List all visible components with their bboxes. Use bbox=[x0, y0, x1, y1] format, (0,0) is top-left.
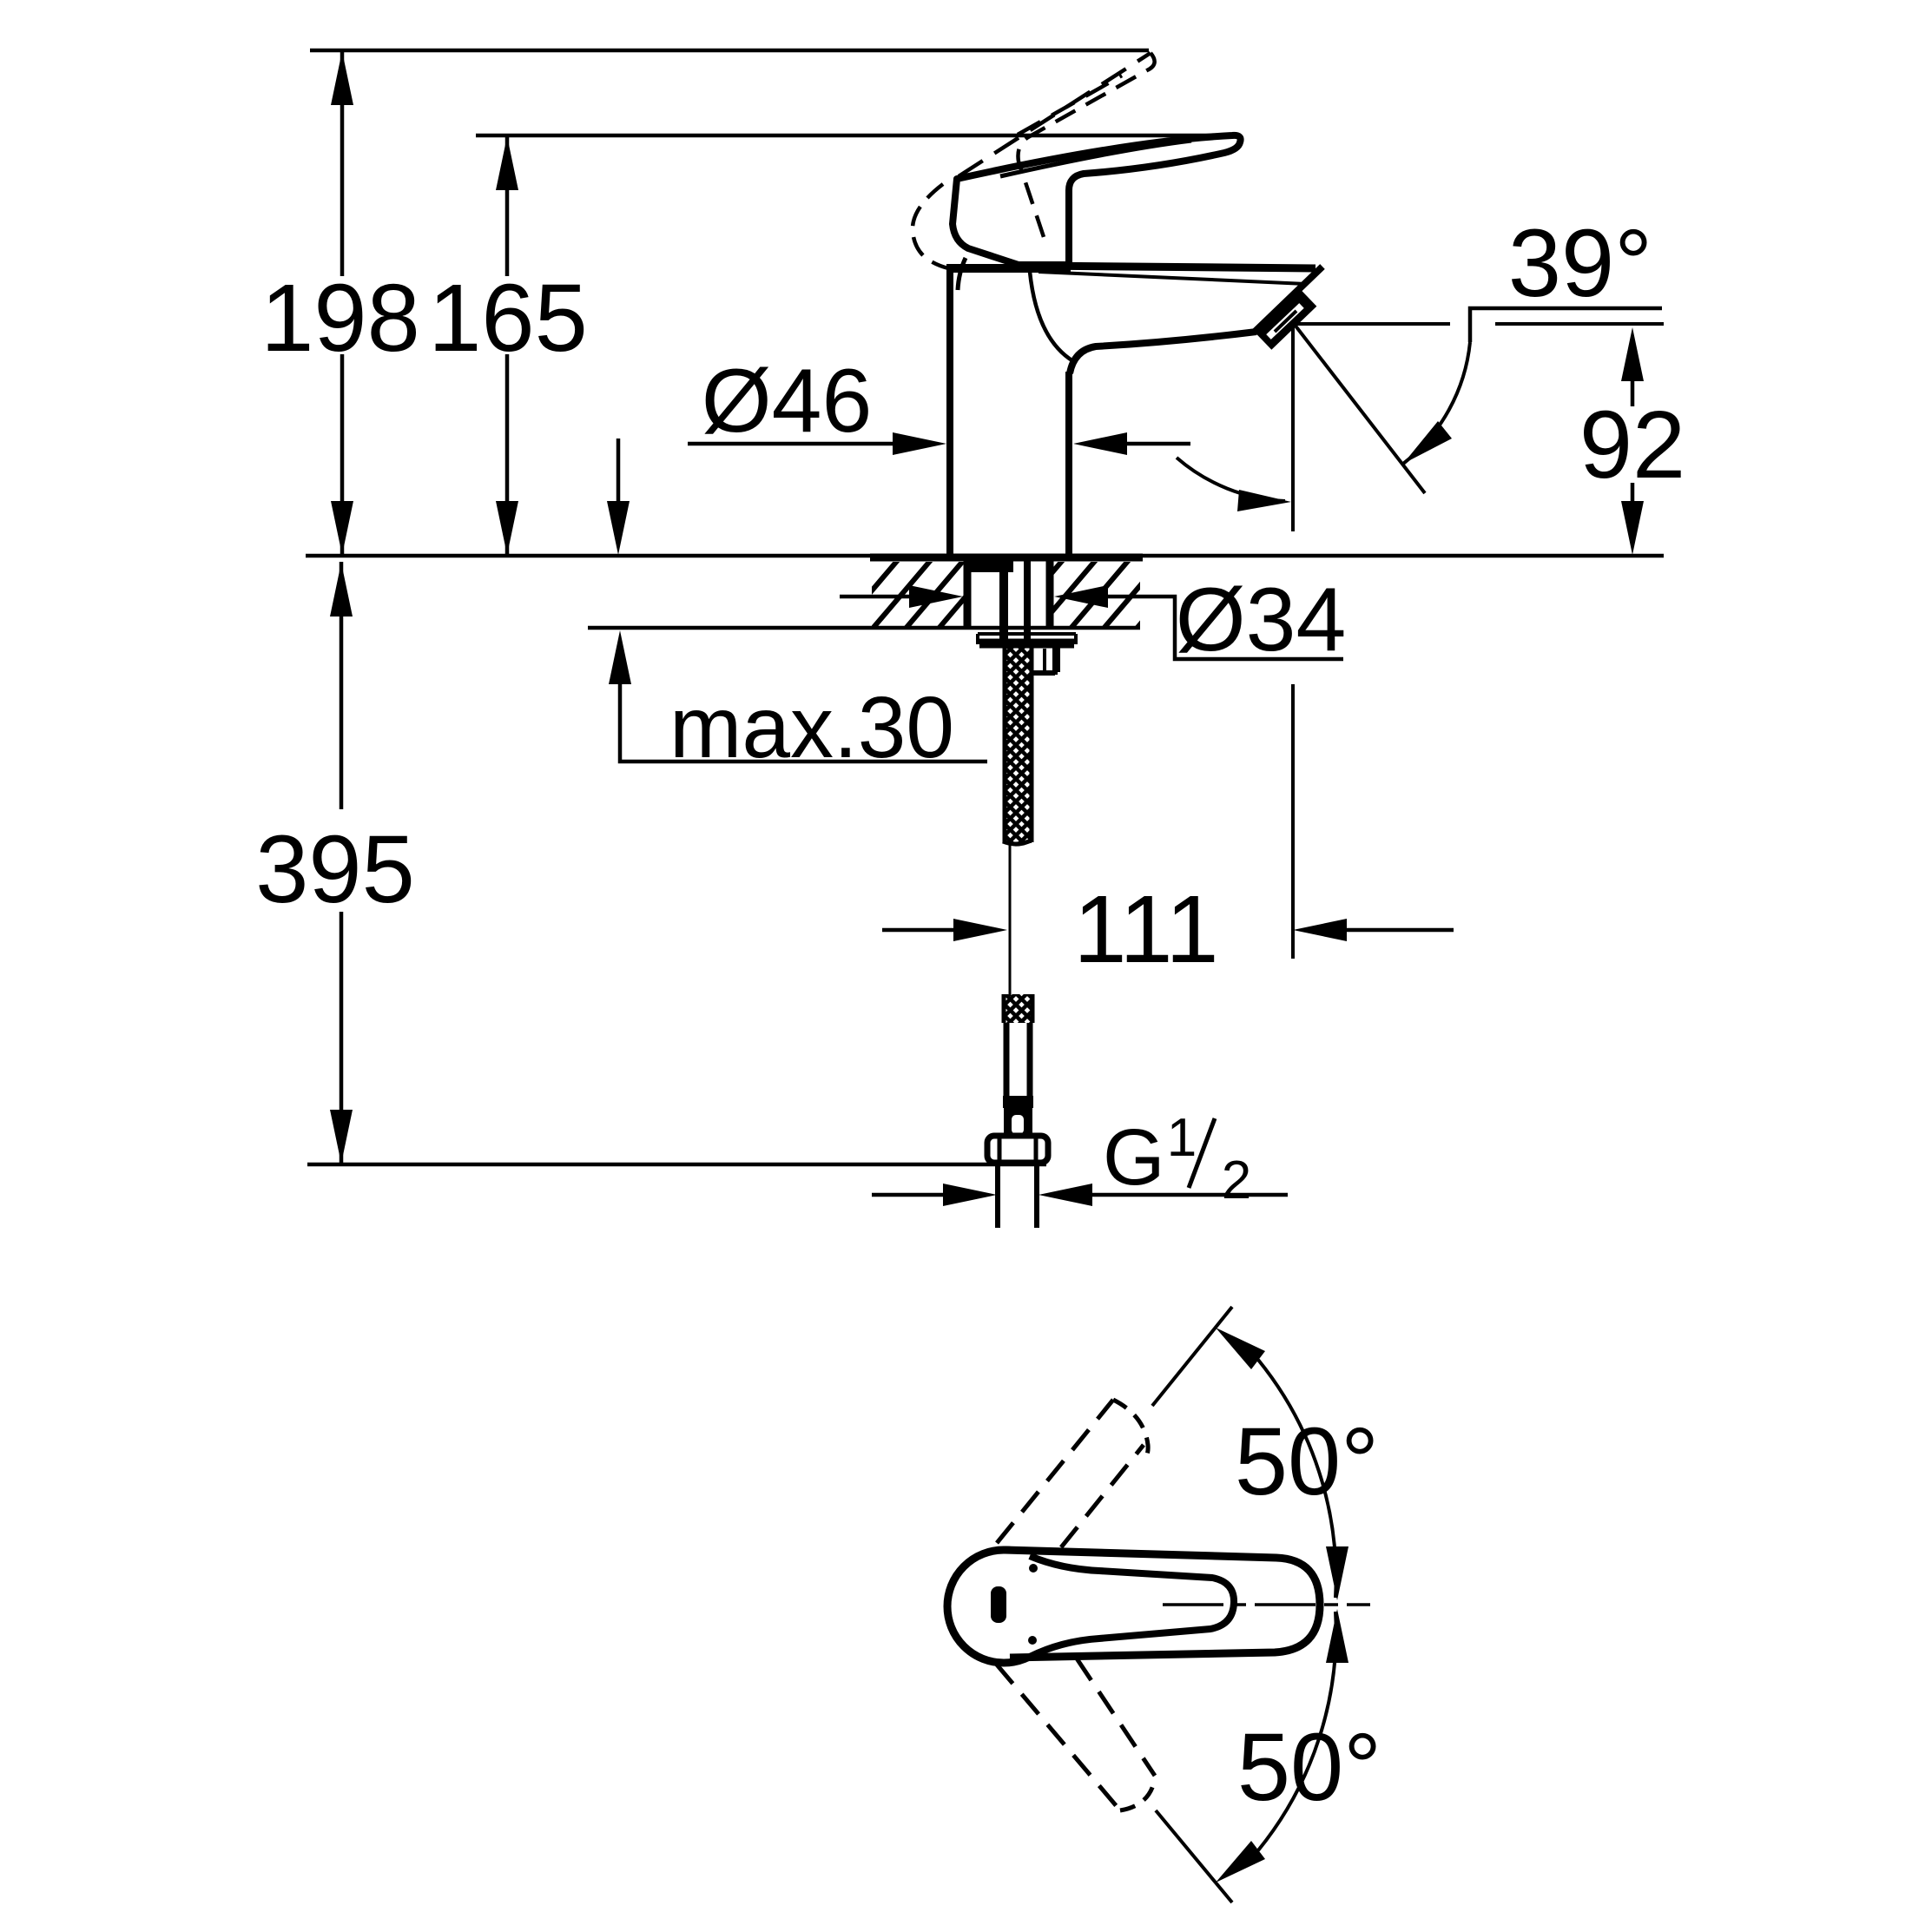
G half pipe bbox=[998, 1164, 1037, 1228]
39 arc A bbox=[1403, 342, 1470, 464]
washer below counter bbox=[978, 634, 1076, 644]
dim 165 arrows bbox=[496, 136, 518, 555]
dim G1/2 arrows bbox=[872, 1193, 945, 1197]
spout tip face bbox=[1255, 267, 1322, 332]
svg-text:Ø34: Ø34 bbox=[1176, 570, 1347, 670]
39 arc B bbox=[1177, 458, 1285, 501]
dashed handle second top line bbox=[1018, 76, 1122, 135]
svg-text:50°: 50° bbox=[1235, 1408, 1379, 1515]
dim 395 vertical line bbox=[340, 562, 344, 1164]
svg-text:Ø46: Ø46 bbox=[702, 351, 873, 452]
dim 92 vertical bbox=[1631, 379, 1635, 502]
dim line 165 top horizontal bbox=[476, 134, 1241, 138]
detail dots bbox=[1029, 1564, 1038, 1573]
shank left wall bbox=[964, 561, 972, 628]
faucet body left edge bbox=[946, 266, 953, 561]
connector nut bbox=[987, 1136, 1048, 1163]
counter top thick segment under faucet bbox=[870, 554, 1143, 562]
top view lever outline bbox=[1005, 1550, 1320, 1658]
upper dashed handle top view bbox=[997, 1400, 1113, 1543]
svg-text:92: 92 bbox=[1579, 392, 1685, 498]
bottom reference line bbox=[307, 1163, 1046, 1167]
spout underside bbox=[1070, 332, 1256, 373]
dashed rotated dome bbox=[913, 184, 948, 268]
lower hose tube bbox=[1006, 1023, 1030, 1098]
spout inner curve bbox=[1030, 272, 1073, 361]
hose braided upper bbox=[1005, 647, 1032, 843]
dashed handle rotated top edge bbox=[959, 53, 1151, 176]
counter bottom line bbox=[588, 626, 1140, 630]
svg-text:165: 165 bbox=[428, 265, 588, 372]
39 degree diagonal line bbox=[1295, 325, 1425, 493]
lower hose braid segment bbox=[1004, 994, 1032, 1023]
aerator bbox=[1263, 298, 1309, 341]
50 lower arc bbox=[1258, 1612, 1336, 1850]
top view centerline bbox=[1163, 1603, 1370, 1606]
counter top line bbox=[306, 554, 1664, 558]
shank right wall bbox=[1046, 561, 1054, 628]
dim line 198 top horizontal bbox=[310, 49, 1149, 53]
50 upper arc bbox=[1258, 1360, 1336, 1598]
counter hatching bbox=[834, 549, 1204, 636]
svg-text:2: 2 bbox=[1222, 1151, 1251, 1210]
dim 198 vertical line bbox=[340, 50, 345, 556]
ferrule bbox=[1004, 1108, 1032, 1137]
dim 165 vertical line bbox=[505, 135, 510, 556]
dim Ø34 arrows bbox=[840, 595, 911, 599]
spout top inner thin line bbox=[1039, 272, 1306, 284]
50 lower extension line bbox=[1156, 1810, 1232, 1902]
max.30 dimension bbox=[620, 684, 987, 762]
50 upper extension line bbox=[1152, 1307, 1232, 1406]
svg-text:39°: 39° bbox=[1508, 210, 1652, 317]
shank top bar bbox=[965, 561, 1013, 572]
dim 395 arrows bbox=[330, 563, 353, 1164]
lever hole bbox=[991, 1586, 1006, 1623]
top view cap circle bbox=[947, 1550, 1060, 1663]
dashed handle underside and elbow bbox=[1018, 53, 1154, 247]
svg-text:max.30: max.30 bbox=[669, 679, 954, 776]
lower dashed handle top view bbox=[996, 1664, 1120, 1810]
dim Ø46 arrows bbox=[688, 442, 894, 446]
crimp band bbox=[1003, 1096, 1033, 1108]
svg-text:198: 198 bbox=[260, 265, 420, 372]
hose centerline bbox=[1009, 844, 1012, 996]
handle inner top line bbox=[1000, 141, 1191, 176]
svg-text:395: 395 bbox=[255, 816, 415, 923]
dim 198 arrows bbox=[331, 51, 353, 555]
svg-text:111: 111 bbox=[1073, 876, 1218, 983]
faucet body right edge bbox=[1065, 372, 1072, 561]
dim 111 bbox=[882, 928, 955, 933]
aux extension line with down arrow at counter bbox=[617, 438, 621, 504]
handle lever solid bbox=[953, 135, 1241, 265]
faucet body top thick line bbox=[946, 264, 1071, 273]
hose through shank bbox=[999, 572, 1008, 647]
39 degree bracket bbox=[1470, 308, 1662, 342]
spout top line bbox=[1032, 266, 1315, 268]
top view slot bbox=[1030, 1556, 1234, 1657]
aerator horizontal reference line bbox=[1295, 322, 1664, 326]
pivot joint curve bbox=[958, 258, 966, 290]
mounting stud bbox=[1033, 648, 1058, 675]
svg-text:G: G bbox=[1103, 1113, 1165, 1202]
aerator vertical reference line bbox=[1291, 325, 1295, 959]
svg-text:50°: 50° bbox=[1237, 1714, 1381, 1821]
svg-text:1: 1 bbox=[1167, 1108, 1197, 1168]
